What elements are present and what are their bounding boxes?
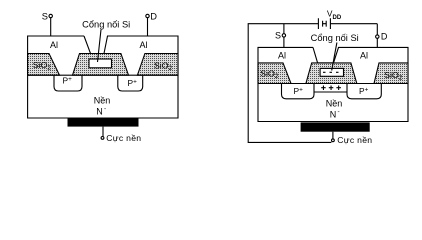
substrate metal bar: [68, 118, 139, 126]
svg-text:Nền: Nền: [94, 96, 111, 106]
terminal S circle: [49, 14, 52, 17]
channel positive charges: [321, 86, 341, 91]
terminal substrate circle right diagram: [332, 139, 335, 142]
gate negative charges: [323, 71, 339, 73]
gate silicon rectangle: [89, 59, 112, 68]
oxide SiO2 right block right diagram: [374, 63, 408, 84]
wire S terminal right diagram: [283, 24, 285, 48]
svg-text:N: N: [330, 109, 337, 119]
silicon surface line: [28, 74, 178, 76]
svg-text:D: D: [381, 32, 388, 42]
svg-text:Al: Al: [50, 40, 58, 50]
svg-text:Al: Al: [278, 51, 286, 61]
svg-text:N: N: [96, 107, 103, 117]
svg-text:Al: Al: [360, 51, 368, 61]
P+ well left: [54, 75, 82, 91]
gate label leader line: [98, 30, 102, 63]
P+ well left right diagram: [282, 84, 315, 99]
oxide SiO2 left block right diagram: [258, 63, 291, 84]
P+ well right: [118, 75, 143, 91]
svg-text:VDD: VDD: [327, 9, 342, 21]
silicon surface line right diagram: [258, 83, 408, 85]
svg-text:-: -: [104, 106, 106, 113]
battery VDD plates: [318, 18, 330, 29]
terminal D circle right diagram: [376, 35, 379, 38]
svg-text:S: S: [42, 11, 48, 21]
svg-text:Al: Al: [139, 40, 147, 50]
wire battery loop left and bottom: [248, 24, 331, 143]
body outline with gate notch (MOSFET cross-section body): [28, 36, 178, 118]
wire battery to D: [330, 23, 377, 25]
induced channel line: [314, 91, 347, 93]
terminal S circle right diagram: [282, 34, 285, 37]
terminal D circle: [146, 14, 149, 17]
body outline with gate notch (right MOSFET cross-section): [258, 47, 408, 121]
gate label leader line right diagram: [332, 43, 337, 71]
svg-text:Cổng nối Si: Cổng nối Si: [82, 20, 130, 30]
gate oxide bump: [73, 54, 129, 76]
svg-text:-: -: [338, 108, 340, 115]
wire D terminal right diagram: [376, 24, 378, 48]
svg-text:S: S: [275, 31, 281, 41]
gate silicon rectangle right diagram: [320, 68, 343, 76]
oxide SiO2 right block: [137, 54, 178, 76]
wire S terminal: [50, 18, 52, 36]
P+ well right right diagram: [347, 84, 381, 99]
svg-text:D: D: [150, 11, 157, 21]
wire D terminal: [147, 18, 149, 36]
terminal substrate circle: [101, 137, 104, 140]
svg-text:Cực nền: Cực nền: [337, 135, 372, 145]
wire substrate terminal: [102, 127, 104, 137]
svg-text:Cổng nối Si: Cổng nối Si: [311, 33, 359, 43]
oxide SiO2 left block: [28, 54, 60, 76]
gate oxide bump right diagram: [306, 63, 357, 84]
substrate metal bar right diagram: [301, 122, 370, 131]
wire substrate terminal right diagram: [332, 132, 334, 139]
svg-text:Nền: Nền: [326, 99, 343, 109]
svg-text:Cực nền: Cực nền: [106, 133, 141, 143]
